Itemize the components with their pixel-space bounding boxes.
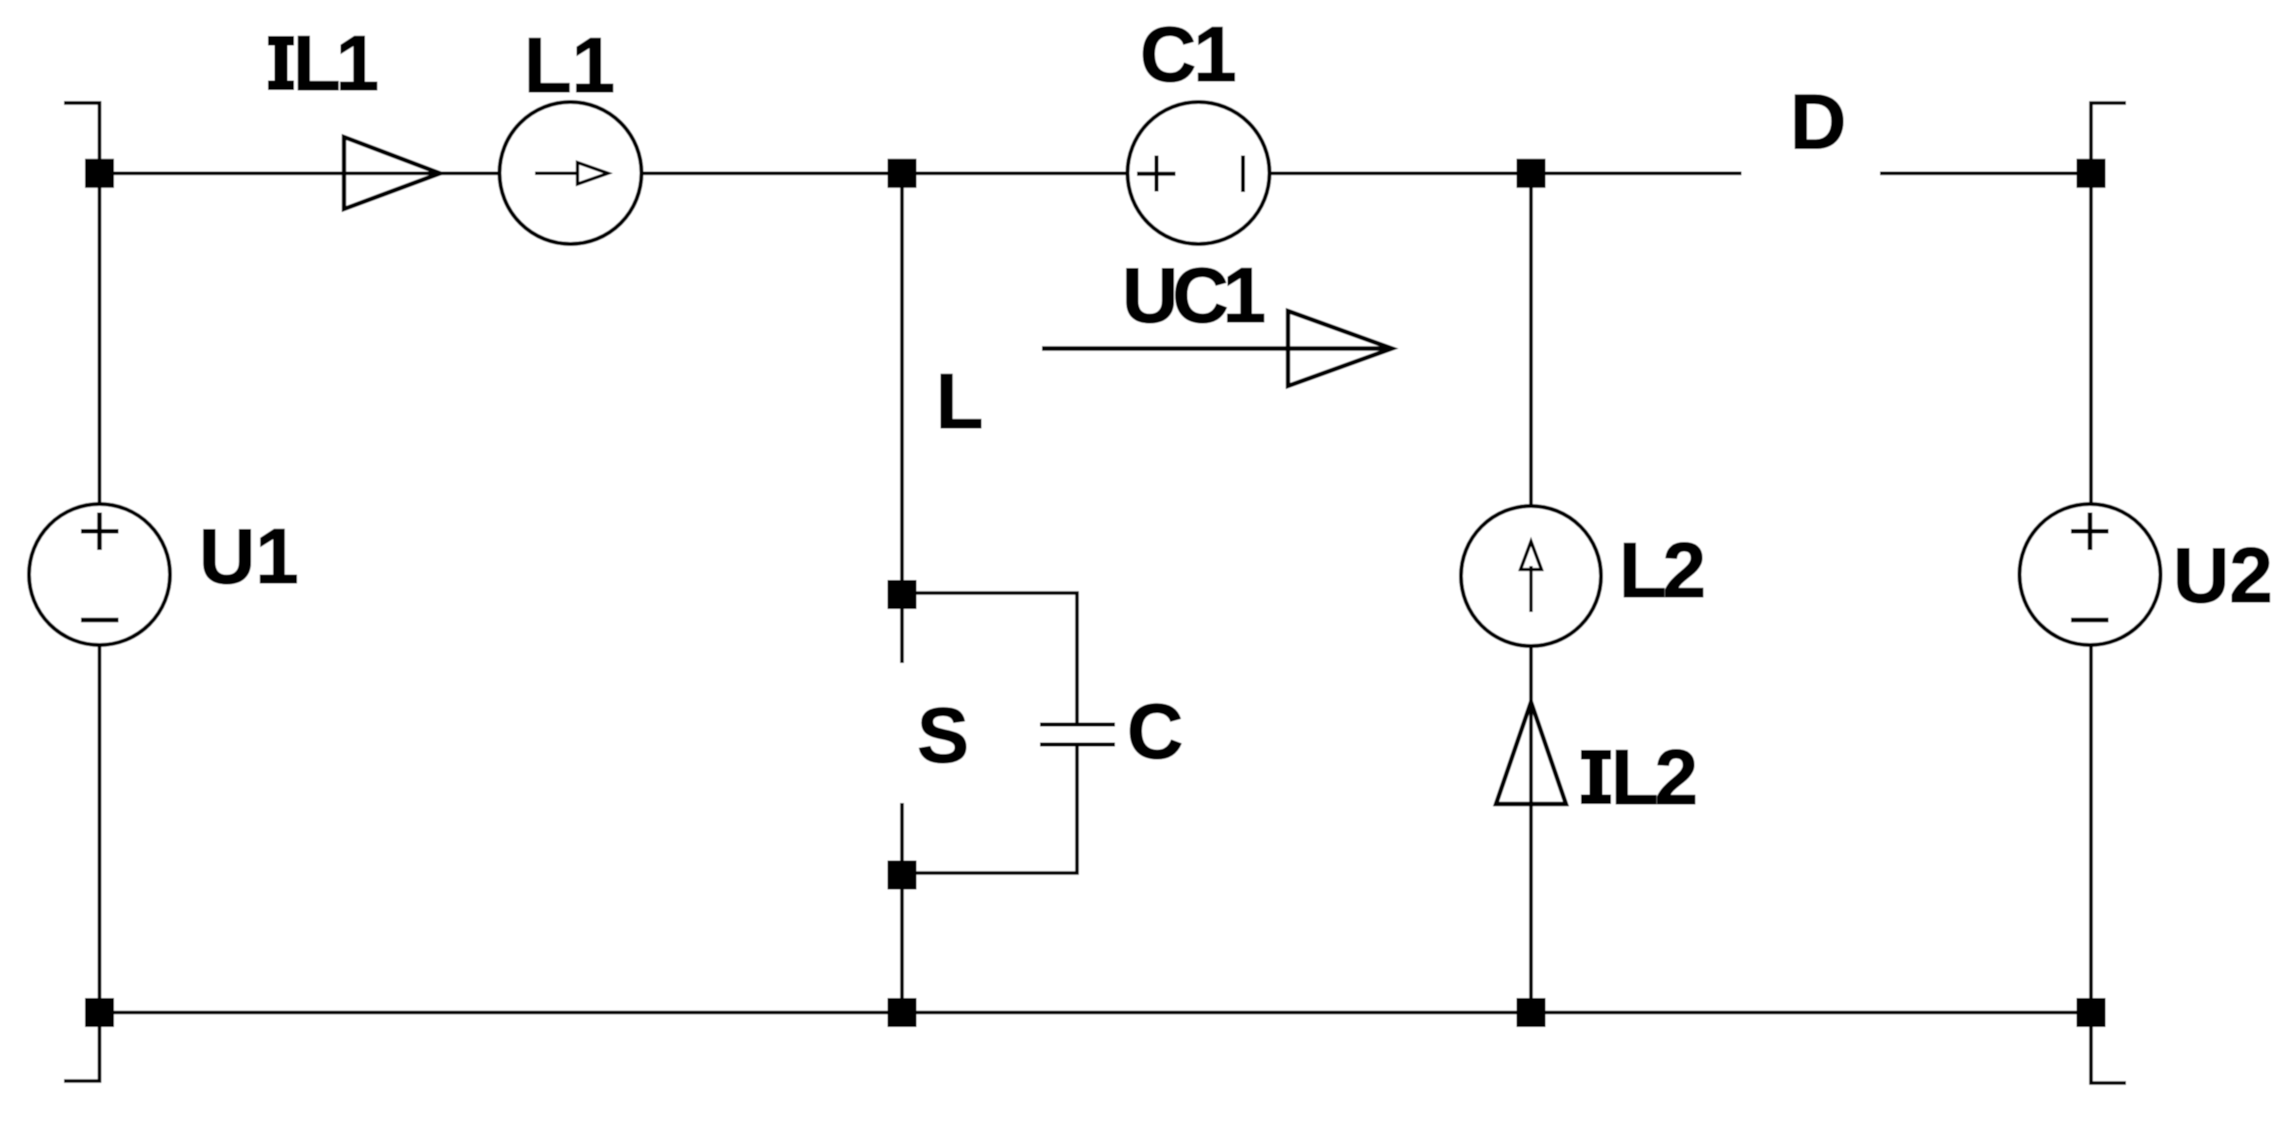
svg-text:L2: L2: [1611, 733, 1696, 821]
svg-text:U2: U2: [2173, 531, 2273, 619]
svg-text:L2: L2: [1619, 526, 1704, 614]
svg-text:S: S: [917, 691, 969, 779]
svg-text:C1: C1: [1140, 10, 1235, 98]
svg-text:D: D: [1790, 78, 1846, 166]
svg-text:L1: L1: [293, 19, 378, 107]
svg-text:UC1: UC1: [1122, 251, 1265, 339]
svg-text:L: L: [936, 357, 984, 445]
svg-text:L1: L1: [524, 21, 615, 109]
svg-text:C: C: [1127, 687, 1183, 775]
svg-text:U1: U1: [199, 512, 299, 600]
